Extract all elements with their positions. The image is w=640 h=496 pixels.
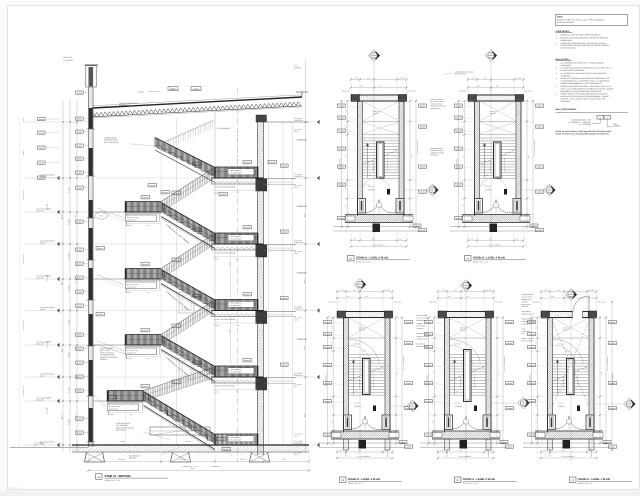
up arrow LEVEL 2 PLAN [454, 361, 456, 395]
svg-text:2'-10": 2'-10" [463, 203, 465, 207]
grid line LEVEL 4 PLAN [490, 62, 492, 249]
7'-0 clearance dim arrows [230, 249, 232, 298]
lower door LEVEL 4 PLAN [490, 224, 498, 233]
svg-text:11'-4": 11'-4" [303, 412, 306, 417]
side marker LEVEL 4 PLAN [544, 184, 556, 196]
svg-text:5'-7 1/2": 5'-7 1/2" [67, 319, 70, 326]
L1 dashed stair-above lines [553, 322, 590, 407]
tags LEVEL 3 PLAN [324, 321, 332, 324]
side marker LEVEL 3 PLAN [407, 400, 419, 412]
wall type legend diagram [597, 116, 604, 120]
grid marker LEVEL 1 PLAN [565, 289, 577, 301]
grid line LEVEL 3 PLAN [359, 291, 361, 463]
svg-text:FS-2: FS-2 [100, 215, 104, 218]
center rail LEVEL 4 PLAN [494, 142, 502, 178]
level leader line [25, 177, 89, 179]
svg-text:2'-10": 2'-10" [332, 419, 334, 423]
ground band label box [228, 436, 254, 442]
right wall LEVEL 3 PLAN [389, 318, 391, 433]
floor line across shaft [93, 310, 212, 312]
svg-text:RD-2: RD-2 [171, 88, 175, 91]
lower door LEVEL 5 PLAN [373, 224, 381, 233]
svg-text:111'-4": 111'-4" [40, 374, 45, 377]
level leader line [25, 310, 89, 312]
svg-text:FABRICATION.: FABRICATION. [561, 39, 573, 42]
column joint block [256, 378, 267, 391]
svg-text:STANDPIPE 2'-0" x 4'-2": STANDPIPE 2'-0" x 4'-2" [503, 357, 505, 373]
side marker LEVEL 1 PLAN [624, 398, 636, 410]
bottom center equipment [150, 427, 210, 435]
left light rail story 3 [97, 275, 125, 285]
svg-text:2'-10": 2'-10" [346, 203, 348, 207]
break line LEVEL 3 PLAN [350, 367, 385, 381]
svg-text:3'-0": 3'-0" [536, 325, 538, 328]
svg-text:SCALE: 1/4" = 1'-0": SCALE: 1/4" = 1'-0" [578, 482, 593, 485]
lower corridor lines LEVEL 4 PLAN [450, 226, 490, 228]
floor landing guardrail [215, 167, 258, 178]
corridor floor line [264, 377, 297, 379]
side marker LEVEL 2 PLAN [518, 397, 530, 409]
stair shaft line [176, 117, 178, 445]
lower corridor lines LEVEL 2 PLAN [420, 442, 460, 444]
center rail LEVEL 5 PLAN [377, 142, 385, 178]
svg-text:7'-4": 7'-4" [332, 371, 334, 374]
corridor wall LEVEL 1 PLAN [535, 430, 603, 432]
lower corridor lines LEVEL 1 PLAN [523, 442, 563, 444]
ground floor slab [72, 444, 309, 446]
level leader line [25, 400, 89, 402]
lower run story 4 [161, 203, 215, 234]
level leader line [25, 211, 89, 213]
svg-text:STAIR #1 - LEVEL 2 PLAN: STAIR #1 - LEVEL 2 PLAN [463, 478, 495, 481]
ground hatch [12, 445, 15, 448]
column joint block [256, 179, 267, 192]
left lower tags [96, 247, 104, 250]
wall spandrel block [89, 408, 93, 442]
svg-text:15'-8 1/2": 15'-8 1/2" [118, 458, 126, 461]
svg-text:7'-4": 7'-4" [463, 155, 465, 158]
upper run story 1 [144, 368, 214, 391]
svg-text:11'-4": 11'-4" [61, 347, 64, 352]
title LEVEL 5 PLAN [348, 256, 355, 261]
center rail LEVEL 3 PLAN [363, 359, 371, 395]
svg-text:R-1: R-1 [194, 88, 197, 91]
break line LEVEL 5 PLAN [364, 150, 399, 164]
wall spandrel block [89, 108, 93, 129]
left dims LEVEL 3 PLAN [333, 318, 335, 444]
left dimension line [62, 100, 64, 452]
floor band label box [228, 169, 254, 175]
left light rail story 4 [97, 208, 125, 218]
svg-text:5'-8 1/2": 5'-8 1/2" [67, 418, 70, 425]
svg-text:GWB/STUD REQUIREMENTS (TYP.) T: GWB/STUD REQUIREMENTS (TYP.) THROUGHOUT)… [561, 82, 603, 85]
right wall LEVEL 1 PLAN [593, 318, 595, 433]
floor band label box [228, 368, 254, 374]
svg-text:LOCATIONS.: LOCATIONS. [561, 100, 572, 103]
landing label story 2 [126, 348, 157, 355]
svg-text:7'-4": 7'-4" [433, 371, 435, 374]
door arcs LEVEL 2 PLAN [453, 416, 467, 429]
L1 top door arc [573, 296, 589, 312]
bottom dims LEVEL 5 PLAN [351, 240, 407, 242]
svg-text:11'-4": 11'-4" [303, 345, 306, 350]
svg-text:STAIR NOTES:: STAIR NOTES: [556, 30, 570, 33]
title LEVEL 1 PLAN [570, 477, 577, 482]
stair treads LEVEL 3 PLAN [349, 355, 386, 396]
upper rail to roof [161, 121, 213, 144]
left light rail story 2 [97, 341, 125, 351]
svg-text:UNLESS NOTED OTHERWISE.: UNLESS NOTED OTHERWISE. [561, 69, 586, 72]
corridor wall LEVEL 5 PLAN [345, 214, 413, 216]
center rail LEVEL 1 PLAN [567, 359, 575, 395]
svg-text:REFER TO SHEET A-24.4 FOR WATE: REFER TO SHEET A-24.4 FOR WATERPROOFING … [556, 132, 610, 135]
left dims LEVEL 5 PLAN [347, 101, 349, 227]
svg-text:CORRIDOR: CORRIDOR [297, 338, 308, 341]
svg-text:21'-8": 21'-8" [497, 372, 499, 376]
svg-text:2'-10": 2'-10" [433, 419, 435, 423]
svg-text:169'-11 1/2": 169'-11 1/2" [63, 56, 72, 59]
left wall LEVEL 3 PLAN [343, 318, 345, 433]
door arcs LEVEL 4 PLAN [483, 200, 497, 213]
wall spandrel block [89, 148, 93, 176]
landing label story 3 [126, 282, 157, 289]
door arcs LEVEL 3 PLAN [352, 416, 366, 429]
top wall LEVEL 3 PLAN [337, 311, 393, 313]
bottom dimension line 1 [89, 461, 310, 463]
fire hose cabinet story 3 [179, 292, 194, 313]
corridor floor line [264, 310, 297, 312]
svg-text:21'-8": 21'-8" [396, 372, 398, 376]
bottom dims LEVEL 1 PLAN [541, 451, 597, 453]
floor line across shaft [93, 177, 212, 179]
svg-text:CORRIDOR: CORRIDOR [297, 205, 308, 208]
svg-text:3'-0": 3'-0" [332, 325, 334, 328]
svg-text:STAIR #1 - SECTION: STAIR #1 - SECTION [105, 475, 131, 478]
stair treads LEVEL 2 PLAN [450, 355, 487, 396]
grid marker LEVEL 4 PLAN [485, 50, 497, 62]
level leader line [25, 376, 89, 378]
tags LEVEL 4 PLAN [455, 104, 463, 107]
floor band label box [228, 301, 254, 307]
lower corridor lines LEVEL 5 PLAN [333, 226, 373, 228]
mid landing guardrail story 4 [126, 202, 162, 213]
svg-text:2'-0": 2'-0" [433, 341, 435, 344]
left wall LEVEL 5 PLAN [357, 101, 359, 216]
svg-text:21'-8": 21'-8" [600, 372, 602, 376]
sump leader [217, 438, 225, 441]
svg-text:STAIR #1 - LEVEL 1 PLAN: STAIR #1 - LEVEL 1 PLAN [578, 478, 610, 481]
svg-text:1: 1 [496, 204, 497, 207]
up arrow LEVEL 1 PLAN [557, 361, 559, 395]
svg-text:3'-4": 3'-4" [536, 403, 538, 406]
svg-text:5'-8 1/2": 5'-8 1/2" [67, 285, 70, 292]
top wall LEVEL 2 PLAN [438, 311, 494, 313]
floor band label box [228, 235, 254, 241]
svg-text:SCALE: 1/4" = 1'-0": SCALE: 1/4" = 1'-0" [463, 482, 478, 485]
svg-text:2'-0": 2'-0" [332, 341, 334, 344]
door arcs LEVEL 5 PLAN [366, 200, 380, 213]
floor line across shaft [93, 243, 212, 245]
landing label story 1 [108, 404, 139, 411]
svg-text:2'-0": 2'-0" [346, 125, 348, 128]
svg-text:5'-7 1/2": 5'-7 1/2" [67, 386, 70, 393]
svg-text:11'-4": 11'-4" [61, 414, 64, 419]
top dims LEVEL 4 PLAN [468, 79, 524, 81]
svg-text:STAIR #1 - LEVEL 5 PLAN: STAIR #1 - LEVEL 5 PLAN [356, 257, 388, 260]
lower corridor lines LEVEL 3 PLAN [319, 442, 359, 444]
lower door LEVEL 1 PLAN [563, 440, 571, 449]
level leader line [25, 278, 89, 280]
wall stubs below corridor LEVEL 3 PLAN [344, 439, 349, 450]
landing posts story 4 [125, 214, 127, 226]
svg-text:39'-4": 39'-4" [191, 467, 196, 470]
corridor wall LEVEL 2 PLAN [432, 430, 500, 432]
upper landing X LEVEL 2 PLAN [450, 318, 487, 338]
grid line LEVEL 2 PLAN [465, 292, 467, 463]
svg-text:1: 1 [569, 421, 570, 424]
landing posts story 3 [125, 281, 127, 293]
svg-text:11'-4": 11'-4" [61, 281, 64, 286]
svg-text:11'-4": 11'-4" [303, 279, 306, 284]
level leader line [25, 444, 89, 446]
mid landing guardrail story 1 [108, 391, 144, 402]
right level marker [296, 444, 316, 446]
stair treads LEVEL 5 PLAN [363, 138, 400, 179]
stair treads LEVEL 1 PLAN [553, 355, 590, 396]
turn arc upper LEVEL 2 PLAN [450, 339, 481, 363]
stair treads LEVEL 4 PLAN [480, 138, 517, 179]
right dims LEVEL 2 PLAN [496, 318, 498, 444]
turn radius arc LEVEL 5 PLAN [362, 178, 390, 192]
story tags 1 [172, 380, 180, 383]
svg-text:1: 1 [466, 421, 467, 424]
top wall LEVEL 4 PLAN [468, 94, 524, 96]
ground landing guardrail [215, 434, 258, 445]
svg-text:7'-5": 7'-5" [282, 458, 286, 461]
parapet at top of left wall [85, 64, 99, 66]
svg-text:STANDPIPE 2'-0" x 4'-2": STANDPIPE 2'-0" x 4'-2" [416, 140, 418, 156]
mid landing guardrail story 2 [126, 335, 162, 346]
svg-text:11'-4": 11'-4" [303, 212, 306, 217]
floor slab [212, 177, 264, 179]
svg-text:21'-8": 21'-8" [527, 155, 529, 159]
mid landing guardrail story 3 [126, 269, 162, 280]
svg-text:STANDPIPE 2'-0" x 4'-2": STANDPIPE 2'-0" x 4'-2" [402, 357, 404, 373]
tags LEVEL 5 PLAN [338, 104, 346, 107]
bottom dims LEVEL 2 PLAN [438, 451, 494, 453]
right wall LEVEL 4 PLAN [520, 101, 522, 216]
up arrow LEVEL 3 PLAN [353, 361, 355, 395]
svg-text:134'-0": 134'-0" [40, 241, 46, 244]
top wall LEVEL 5 PLAN [351, 94, 407, 96]
left dims LEVEL 2 PLAN [434, 318, 436, 444]
L1 top door opening [573, 311, 583, 319]
bottom dimension line 2 [89, 470, 310, 472]
svg-text:CORRIDOR: CORRIDOR [297, 272, 308, 275]
story tags 3 [172, 258, 180, 261]
landing posts story 1 [107, 403, 109, 415]
grid line B [237, 88, 239, 462]
svg-text:2'-10": 2'-10" [536, 419, 538, 423]
landing label story 4 [126, 215, 157, 222]
right level marker [296, 376, 316, 378]
right dims LEVEL 4 PLAN [526, 101, 528, 227]
top dims LEVEL 3 PLAN [337, 291, 393, 293]
upper run story 4 [161, 169, 213, 202]
right dims LEVEL 5 PLAN [409, 101, 411, 227]
lower door LEVEL 3 PLAN [359, 440, 367, 449]
svg-text:REQUIRED AT (+) NO BEARING WAL: REQUIRED AT (+) NO BEARING WALL CONDITIO… [561, 90, 603, 93]
svg-text:5'-8 1/2": 5'-8 1/2" [67, 218, 70, 225]
far left tags [38, 118, 46, 121]
svg-text:WALL TYPE LEGEND:: WALL TYPE LEGEND: [556, 108, 577, 111]
svg-text:8'-3 1/2": 8'-3 1/2" [180, 458, 187, 461]
L1 right dim column [611, 302, 613, 450]
right level marker [296, 121, 316, 123]
roof corridor line [264, 121, 309, 123]
corridor wall LEVEL 4 PLAN [462, 214, 530, 216]
footing [85, 452, 105, 462]
svg-text:OTHERWISE.: OTHERWISE. [561, 74, 572, 77]
svg-text:3'-0": 3'-0" [433, 325, 435, 328]
svg-text:WALL NOTES:: WALL NOTES: [556, 58, 570, 61]
wall spandrel block [89, 360, 93, 396]
svg-text:7'-0" CLEARANCE: 7'-0" CLEARANCE [216, 127, 231, 130]
svg-text:Y302.5 AND Y302.6).: Y302.5 AND Y302.6). [561, 47, 578, 50]
top wall LEVEL 1 PLAN [541, 311, 597, 313]
story tags 4 [172, 191, 180, 194]
right level marker [296, 310, 316, 312]
left cloud detail [95, 212, 108, 220]
wall detail tags [76, 91, 84, 94]
left exterior wall [88, 87, 90, 447]
up arrow LEVEL 5 PLAN [367, 144, 369, 178]
grid marker LEVEL 5 PLAN [368, 50, 380, 62]
fire hose cabinet story 2 [179, 358, 194, 379]
corridor floor line [264, 244, 297, 246]
wall stubs below corridor LEVEL 1 PLAN [548, 439, 553, 450]
roof assembly [93, 95, 303, 106]
leader lines [95, 344, 125, 354]
right concrete column [257, 115, 259, 455]
landing posts story 2 [125, 347, 127, 359]
svg-text:122'-8": 122'-8" [40, 308, 46, 311]
svg-text:5'-8 1/2": 5'-8 1/2" [67, 351, 70, 358]
upper run story 2 [161, 301, 213, 335]
right tag boxes [281, 164, 289, 167]
svg-text:3'-4": 3'-4" [463, 187, 465, 190]
svg-text:SCALE: 1/4" = 1'-0": SCALE: 1/4" = 1'-0" [348, 482, 363, 485]
left wall LEVEL 2 PLAN [444, 318, 446, 433]
upper landing X LEVEL 5 PLAN [363, 101, 400, 121]
lower door LEVEL 2 PLAN [460, 440, 468, 449]
door pockets LEVEL 4 PLAN [475, 199, 483, 214]
svg-text:REFER TO A4.0B FOR STAIR TYPE: REFER TO A4.0B FOR STAIR TYPE INFORMATIO… [561, 33, 602, 36]
turn arc upper LEVEL 3 PLAN [349, 339, 380, 363]
svg-text:STAIR #1 - LEVEL 3 PLAN: STAIR #1 - LEVEL 3 PLAN [348, 478, 380, 481]
right level marker [296, 177, 316, 179]
grid line LEVEL 5 PLAN [373, 62, 375, 249]
upper landing X LEVEL 1 PLAN [553, 318, 590, 338]
svg-text:3'-4": 3'-4" [433, 403, 435, 406]
footing [250, 452, 270, 462]
lower run story 3 [161, 270, 215, 301]
right wall LEVEL 5 PLAN [403, 101, 405, 216]
svg-text:21'-8": 21'-8" [410, 155, 412, 159]
bottom dims LEVEL 4 PLAN [468, 240, 524, 242]
left dims LEVEL 4 PLAN [464, 101, 466, 227]
floor landing guardrail [215, 366, 258, 377]
floor line across shaft [93, 376, 212, 378]
parapet right [301, 92, 303, 97]
wall spandrel block [89, 228, 93, 260]
grade line [10, 447, 89, 449]
svg-text:3'-0": 3'-0" [463, 109, 465, 112]
corridor wall LEVEL 3 PLAN [331, 430, 399, 432]
grid marker LEVEL 2 PLAN [460, 280, 472, 292]
side marker LEVEL 5 PLAN [427, 184, 439, 196]
svg-text:OTHERWISE.: OTHERWISE. [561, 64, 572, 67]
column joint block [256, 311, 267, 324]
floor slab [212, 243, 264, 245]
svg-text:5'-7 1/2": 5'-7 1/2" [67, 186, 70, 193]
right dimension line [305, 96, 307, 452]
upper landing X LEVEL 4 PLAN [480, 101, 517, 121]
break line LEVEL 2 PLAN [451, 367, 486, 381]
left wall LEVEL 4 PLAN [474, 101, 476, 216]
top dims LEVEL 1 PLAN [541, 291, 597, 293]
svg-text:STANDPIPE 2'-0" x 4'-2": STANDPIPE 2'-0" x 4'-2" [606, 357, 608, 373]
floor slab [212, 376, 264, 378]
corridor floor line [264, 178, 297, 180]
svg-text:A8.1 11x17: A8.1 11x17 [9, 487, 18, 490]
top run to roof [155, 138, 215, 168]
right wall LEVEL 2 PLAN [490, 318, 492, 433]
wall spandrel block [89, 268, 93, 300]
svg-text:1: 1 [379, 204, 380, 207]
floor slab [212, 310, 264, 312]
svg-text:11'-4": 11'-4" [61, 214, 64, 219]
upper landing X LEVEL 3 PLAN [349, 318, 386, 338]
svg-text:STANDPIPE 2'-0" x 4'-2": STANDPIPE 2'-0" x 4'-2" [533, 140, 535, 156]
misc tags mid [148, 184, 156, 187]
lower run story 2 [161, 336, 215, 367]
up arrow LEVEL 4 PLAN [484, 144, 486, 178]
svg-text:SCALE: 1/4" = 1'-0": SCALE: 1/4" = 1'-0" [356, 261, 371, 264]
door pockets LEVEL 3 PLAN [344, 415, 352, 430]
bottom dims LEVEL 3 PLAN [337, 451, 393, 453]
left dims LEVEL 1 PLAN [537, 318, 539, 444]
svg-text:5'-7 1/2": 5'-7 1/2" [67, 253, 70, 260]
tags LEVEL 1 PLAN [528, 321, 536, 324]
wall stubs below corridor LEVEL 2 PLAN [445, 439, 450, 450]
svg-text:SYSTEMS LEGENDS: SYSTEMS LEGENDS [557, 21, 574, 24]
top dims LEVEL 5 PLAN [351, 79, 407, 81]
svg-text:2'-0": 2'-0" [536, 341, 538, 344]
story tags 2 [172, 324, 180, 327]
left wall LEVEL 1 PLAN [547, 318, 549, 433]
section title block [96, 474, 103, 479]
svg-text:1: 1 [365, 421, 366, 424]
floor landing guardrail [215, 300, 258, 311]
title LEVEL 2 PLAN [455, 477, 462, 482]
level leader line [25, 344, 89, 346]
top dims LEVEL 2 PLAN [438, 291, 494, 293]
far-left extension line [19, 118, 21, 448]
door pockets LEVEL 2 PLAN [445, 415, 453, 430]
level leader line [25, 243, 89, 245]
svg-text:3'-0": 3'-0" [346, 109, 348, 112]
